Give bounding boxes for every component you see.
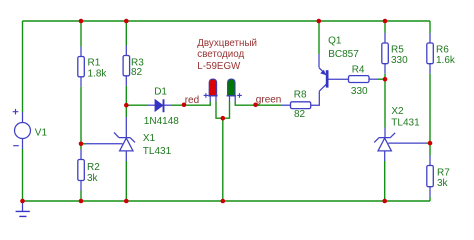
wire R2 to rail <box>80 191 82 202</box>
junction X1 ref <box>79 142 84 147</box>
svg-text:X1: X1 <box>143 133 156 144</box>
wire ref node to R2 <box>80 144 82 150</box>
wire R6 to ref node <box>429 74 431 144</box>
wire bottom rail <box>23 200 431 202</box>
diode D1 <box>155 100 163 111</box>
svg-text:Q1: Q1 <box>328 35 342 46</box>
transistor Q1 emitter diagonal <box>319 68 326 75</box>
pin R6 top <box>429 33 431 43</box>
junction top Q1 <box>317 19 322 24</box>
wire R3 branch top <box>125 21 127 46</box>
junction LED common <box>221 116 226 121</box>
junction LED common rail <box>221 199 226 204</box>
svg-text:R8: R8 <box>294 89 307 100</box>
op X1 TL431 bar <box>114 132 135 142</box>
pin R3 top <box>125 46 127 56</box>
wire X2 ref to R6 branch <box>427 142 431 144</box>
LED green body <box>228 79 235 96</box>
svg-text:Двухцветный: Двухцветный <box>197 38 257 49</box>
svg-text:TL431: TL431 <box>143 146 172 157</box>
pin R5 top <box>384 33 386 43</box>
resistor R5 <box>382 43 389 64</box>
pin R8 right to Q1 collector <box>311 91 320 105</box>
wire D1 node to X1 <box>125 105 127 117</box>
pin R7 bottom <box>429 187 431 197</box>
resistor R4 <box>349 76 370 83</box>
pin R1 top <box>80 47 82 57</box>
wire node to X2 <box>384 79 386 127</box>
pin X2 ref <box>388 142 426 144</box>
wire R5 to node <box>384 74 386 80</box>
transistor Q1 emitter arrow <box>320 70 326 75</box>
pin R8 left <box>281 104 291 106</box>
pin Q1 emitter <box>318 54 320 68</box>
svg-text:X2: X2 <box>391 106 404 117</box>
pin LED green anode <box>234 96 236 102</box>
junction red label <box>182 103 187 108</box>
resistor R7 <box>427 166 434 187</box>
svg-text:3k: 3k <box>437 178 449 189</box>
wire R7 to rail <box>429 197 431 201</box>
junction green label <box>253 103 258 108</box>
svg-text:R4: R4 <box>352 64 365 75</box>
svg-text:red: red <box>185 95 199 106</box>
junction R2 rail <box>79 199 84 204</box>
V1 minus mark <box>13 145 19 147</box>
svg-text:330: 330 <box>391 55 408 66</box>
wire X1 ref <box>81 143 86 145</box>
junction X2 ref R6 <box>428 141 433 146</box>
LED green plus mark <box>237 93 242 98</box>
V1 plus mark <box>13 109 19 115</box>
svg-text:1.8k: 1.8k <box>88 69 108 80</box>
resistor R2 <box>78 160 85 181</box>
pin D1 anode <box>147 104 155 106</box>
wire D1 left <box>126 104 147 106</box>
wire R1 to ref node <box>80 87 82 144</box>
wire LED red cathode down <box>216 102 223 119</box>
wire Q1 emitter to rail <box>318 21 320 54</box>
pin LED green cathode <box>229 96 231 102</box>
transistor Q1 bar <box>326 70 329 87</box>
resistor R6 <box>427 43 434 64</box>
pin LED red cathode <box>215 96 217 102</box>
wire LED common to rail <box>222 118 224 201</box>
wire R6 branch top <box>429 21 431 33</box>
pin X2 anode <box>384 151 386 161</box>
wire left branch upper <box>22 21 24 112</box>
resistor R8 <box>291 102 311 109</box>
pin R2 top <box>80 150 82 160</box>
svg-text:82: 82 <box>131 67 143 78</box>
junction top R3 <box>124 19 129 24</box>
wire red riser <box>209 102 211 106</box>
junction X1 anode rail <box>124 199 129 204</box>
svg-text:1N4148: 1N4148 <box>144 116 179 127</box>
pin R2 bottom <box>80 181 82 191</box>
junction top R1 <box>79 19 84 24</box>
op X1 TL431 triangle <box>120 138 133 151</box>
pin R6 bottom <box>429 64 431 74</box>
pin X1 cathode <box>125 117 127 138</box>
wire green net <box>235 102 281 106</box>
junction D1 node <box>124 103 129 108</box>
op X2 TL431 bar <box>374 133 395 143</box>
wire top rail <box>23 20 431 22</box>
LED red plus mark <box>204 93 209 98</box>
svg-text:1.6k: 1.6k <box>436 55 456 66</box>
LED red flange <box>208 95 218 97</box>
resistor R3 <box>123 56 130 76</box>
pin R4 right <box>369 78 378 80</box>
junction top R5 <box>383 19 388 24</box>
svg-text:L-59EGW: L-59EGW <box>197 61 241 72</box>
svg-text:TL431: TL431 <box>391 118 420 129</box>
junction X2 anode rail <box>382 199 387 204</box>
pin LED red anode <box>209 96 211 102</box>
svg-text:3k: 3k <box>87 173 99 184</box>
pin X2 cathode <box>384 128 386 138</box>
svg-text:R7: R7 <box>437 167 450 178</box>
ground <box>22 201 24 211</box>
pin V1 top <box>22 112 24 123</box>
wire X1 anode to rail <box>125 161 127 201</box>
svg-text:V1: V1 <box>35 127 48 138</box>
svg-text:green: green <box>256 95 282 106</box>
op X2 TL431 triangle <box>378 138 391 151</box>
wire R5 branch top <box>384 21 386 33</box>
wire R1 branch top <box>80 21 82 47</box>
wire LED green cathode down <box>223 102 230 119</box>
wire R4 to node <box>378 78 385 80</box>
pin D1 cathode <box>164 104 172 106</box>
pin R3 bottom <box>125 76 127 86</box>
pin X1 ref <box>86 143 123 145</box>
resistor R1 <box>78 57 85 77</box>
svg-text:330: 330 <box>351 86 368 97</box>
wire X2 anode to rail <box>384 161 386 201</box>
junction R4 R5 X2 <box>383 77 388 82</box>
svg-text:светодиод: светодиод <box>197 49 244 60</box>
pin R7 top <box>429 156 431 166</box>
wire ref node to R7 <box>429 144 431 156</box>
transistor Q1 collector diagonal <box>319 84 326 91</box>
pin X1 anode <box>125 151 127 161</box>
wire R3 to D1 node <box>125 86 127 105</box>
svg-text:R1: R1 <box>88 57 101 68</box>
voltage source V1 <box>15 123 31 139</box>
pin R1 bottom <box>80 77 82 87</box>
pin Q1 base <box>329 78 349 80</box>
wire left branch lower <box>22 149 24 201</box>
pin V1 bottom <box>22 139 24 150</box>
svg-text:BC857: BC857 <box>328 49 359 60</box>
junction ground <box>20 199 25 204</box>
pin R5 bottom <box>384 64 386 74</box>
svg-text:R2: R2 <box>87 162 100 173</box>
wire red net <box>172 104 211 106</box>
svg-text:R5: R5 <box>391 45 404 56</box>
svg-text:R6: R6 <box>436 45 449 56</box>
svg-text:82: 82 <box>294 109 306 120</box>
svg-text:D1: D1 <box>154 87 167 98</box>
LED red body <box>209 79 216 96</box>
LED green flange <box>227 95 237 97</box>
